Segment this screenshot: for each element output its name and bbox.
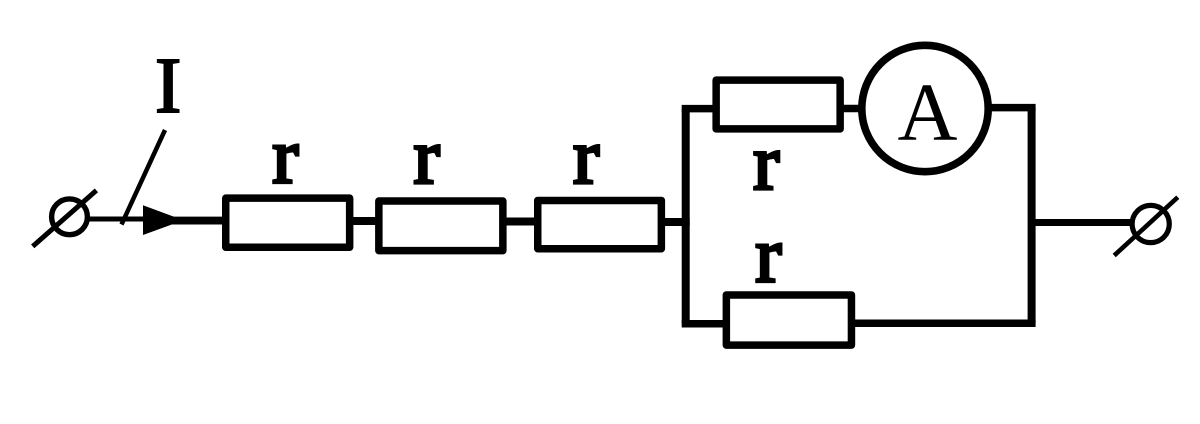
wire: R4 to ammeter xyxy=(840,105,866,113)
svg-text:r: r xyxy=(753,120,779,207)
svg-text:r: r xyxy=(272,114,298,201)
terminal T2 (right, circle with slash) xyxy=(1114,197,1178,255)
svg-text:A: A xyxy=(898,66,958,158)
current arrow (filled triangle on wire) xyxy=(143,205,184,235)
terminal T1 (left, circle with slash) xyxy=(33,190,97,246)
svg-text:r: r xyxy=(755,213,781,300)
wire: left vertical (parallel section, node A) xyxy=(682,109,690,324)
ammeter U1 (circle) xyxy=(862,45,988,171)
wire: ammeter to right vertical xyxy=(986,104,1036,112)
current direction tick (slash under label I) xyxy=(122,130,166,225)
wire: top branch, junction to R4 xyxy=(682,105,717,113)
wire: right vertical (node B) xyxy=(1028,108,1036,324)
wire: arrow to R1 xyxy=(168,217,227,225)
wire: T1 to current arrow xyxy=(87,216,146,221)
wire: bottom branch, left junction to R5 xyxy=(682,320,730,328)
resistor R1 xyxy=(226,198,350,247)
wire: right vertical to terminal T2 xyxy=(1036,219,1132,226)
svg-text:I: I xyxy=(155,43,181,130)
wire: bottom branch, R5 to right vertical xyxy=(851,320,1036,328)
wire: R2 to R3 xyxy=(503,218,538,226)
resistor R2 xyxy=(379,201,503,251)
resistor R5 (bottom branch) xyxy=(726,295,851,345)
svg-text:r: r xyxy=(573,114,599,201)
resistor R3 xyxy=(538,200,662,248)
wire: R3 to left junction xyxy=(661,218,689,226)
svg-text:r: r xyxy=(414,114,440,201)
resistor R4 (top branch) xyxy=(716,80,840,129)
wire: R1 to R2 xyxy=(350,217,379,225)
